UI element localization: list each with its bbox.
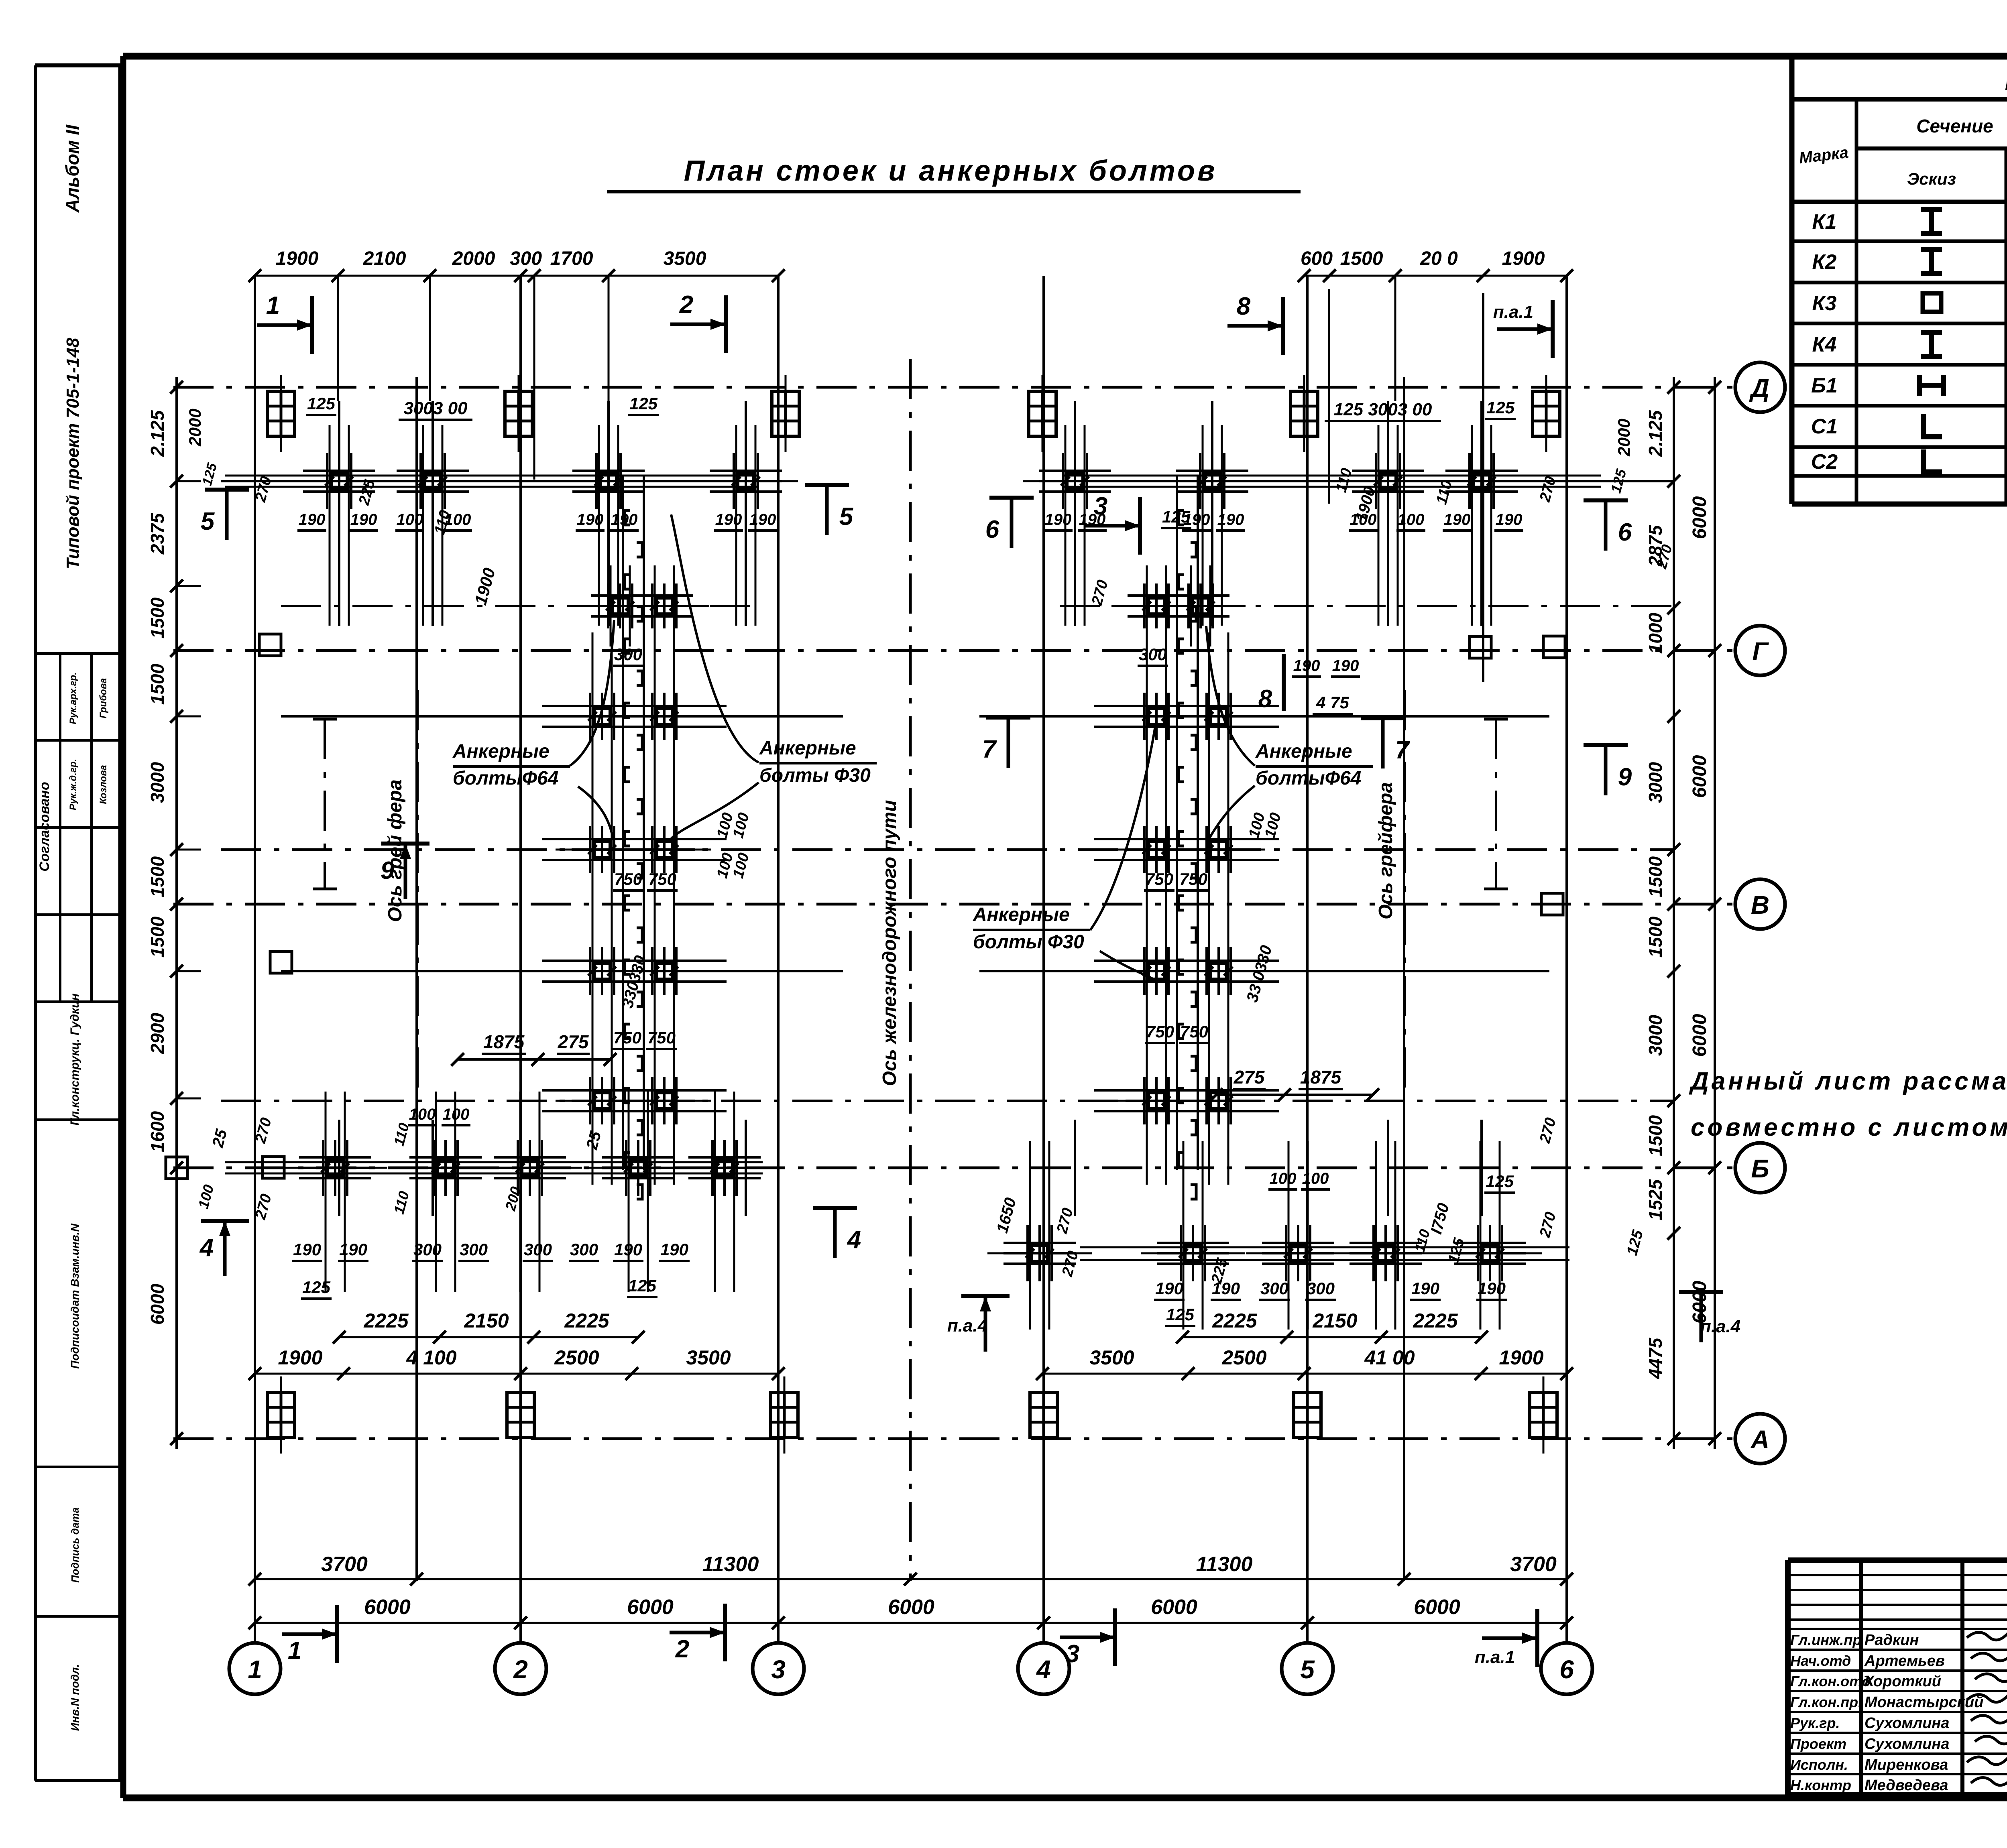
bottom dim 3700-11300 (255, 1578, 1567, 1580)
right dim column inner (1673, 377, 1675, 1449)
svg-text:190: 190 (339, 1240, 367, 1259)
svg-text:125: 125 (302, 1278, 331, 1297)
svg-text:100: 100 (1398, 511, 1425, 529)
svg-text:100: 100 (397, 511, 423, 529)
bin wall cluster row 1785 (589, 693, 591, 740)
svg-text:Артемьев: Артемьев (1864, 1653, 1945, 1669)
svg-text:6000: 6000 (1414, 1596, 1460, 1619)
anchor bolt cluster row 1510 (607, 583, 609, 628)
bin wall cluster row 2743 (589, 1077, 591, 1124)
svg-text:300: 300 (460, 1240, 488, 1259)
axis line 4 (1042, 276, 1045, 1643)
left sidebar stamp column (34, 65, 37, 1781)
svg-text:190: 190 (1411, 1279, 1439, 1298)
svg-text:2375: 2375 (147, 512, 168, 555)
vertical 3695 right (1482, 293, 1484, 682)
svg-text:100: 100 (1350, 511, 1377, 529)
row axis D (173, 386, 1735, 389)
svg-text:Гл.конструкц. Гудкин: Гл.конструкц. Гудкин (68, 993, 81, 1125)
svg-text:Миренкова: Миренкова (1865, 1757, 1948, 1773)
svg-text:275: 275 (558, 1031, 589, 1052)
svg-text:С1: С1 (1811, 415, 1838, 438)
section flag pa4 right (1679, 1290, 1723, 1294)
svg-text:4: 4 (1036, 1655, 1051, 1684)
section flag 8 bottom (1282, 654, 1286, 711)
svg-text:1525: 1525 (1645, 1179, 1666, 1220)
right dim column outer (1714, 377, 1716, 1449)
svg-text:Ось железнодорожного пути: Ось железнодорожного пути (879, 800, 900, 1086)
svg-text:2: 2 (513, 1655, 528, 1684)
svg-text:6000: 6000 (1689, 496, 1710, 539)
row axis A (173, 1437, 1735, 1440)
svg-text:1: 1 (288, 1637, 301, 1665)
section flag 1 top (310, 296, 314, 354)
column K3 top (505, 391, 532, 436)
section flag pa1 top (1551, 300, 1555, 358)
svg-text:750: 750 (647, 1028, 676, 1047)
svg-text:Анкерные: Анкерные (1255, 741, 1352, 762)
anchor bolt cluster row B left (322, 1140, 324, 1196)
svg-text:Рук.гр.: Рук.гр. (1790, 1715, 1840, 1731)
section flag 7 right (1361, 716, 1405, 720)
svg-text:4 100: 4 100 (406, 1346, 456, 1369)
svg-text:Проект: Проект (1790, 1736, 1846, 1752)
svg-text:190: 190 (715, 511, 742, 529)
post square (263, 1157, 284, 1178)
svg-text:1000: 1000 (1645, 612, 1666, 654)
svg-text:190: 190 (1293, 657, 1320, 675)
svg-text:1900: 1900 (1502, 248, 1545, 269)
grab axis marker right (1495, 719, 1497, 889)
row 2117 dashdot (221, 848, 1674, 851)
svg-text:7: 7 (982, 736, 997, 763)
svg-text:Сухомлина: Сухомлина (1865, 1715, 1950, 1732)
svg-text:4 75: 4 75 (1316, 693, 1349, 712)
grab crane axis left (416, 690, 419, 1100)
axis line 2 (519, 276, 522, 1643)
svg-text:100: 100 (1302, 1170, 1329, 1187)
svg-text:6000: 6000 (364, 1596, 411, 1619)
svg-text:125: 125 (1486, 1172, 1514, 1191)
axis circle 1 (229, 1643, 281, 1694)
section flag 1 bottom (335, 1605, 339, 1663)
svg-text:6000: 6000 (147, 1283, 168, 1325)
svg-text:3500: 3500 (686, 1346, 731, 1369)
svg-text:125: 125 (628, 1276, 657, 1295)
post square (166, 1157, 187, 1179)
svg-text:К2: К2 (1812, 250, 1837, 274)
svg-text:1900: 1900 (278, 1346, 322, 1369)
column K3 top (772, 391, 799, 436)
svg-text:3700: 3700 (1510, 1553, 1557, 1576)
axis line 5 (1306, 276, 1309, 1643)
svg-text:В: В (1751, 890, 1769, 919)
svg-text:1875: 1875 (1300, 1067, 1342, 1088)
svg-text:3003 00: 3003 00 (403, 398, 468, 418)
bin wall cluster row 2420 (589, 947, 591, 995)
svg-text:5: 5 (839, 503, 854, 531)
secondary verticals upper (338, 401, 340, 626)
section flag 8 top (1281, 297, 1285, 355)
anchor bolt cluster row B right (1026, 1225, 1029, 1281)
anchor bolt cluster row B left (517, 1140, 519, 1196)
section flag 9 left (381, 842, 429, 846)
row axis G (173, 649, 1735, 652)
svg-text:4475: 4475 (1645, 1337, 1666, 1379)
svg-text:болты Ф30: болты Ф30 (973, 931, 1084, 953)
svg-text:20 0: 20 0 (1420, 248, 1458, 269)
section flag 2 top (724, 295, 728, 353)
sidebar lower labels (35, 1118, 120, 1121)
left dim column (175, 377, 178, 1449)
svg-text:300: 300 (510, 248, 542, 269)
svg-text:совместно с листом 7.: совместно с листом 7. (1691, 1114, 2007, 1141)
svg-text:190: 190 (1183, 511, 1210, 529)
svg-text:Радкин: Радкин (1865, 1632, 1919, 1649)
bin wall cluster row 1785 (651, 693, 653, 740)
secondary verticals lower (338, 1120, 340, 1216)
svg-text:Подписоидат Взам.инв.N: Подписоидат Взам.инв.N (69, 1223, 81, 1368)
svg-text:К3: К3 (1812, 292, 1837, 315)
svg-text:2.125: 2.125 (147, 410, 168, 457)
svg-text:1900: 1900 (1499, 1346, 1543, 1369)
svg-text:Монастырский: Монастырский (1865, 1694, 1983, 1711)
axis line 3 (777, 276, 780, 1643)
svg-text:1700: 1700 (550, 248, 593, 269)
svg-text:Ось грей фера: Ось грей фера (385, 779, 406, 922)
svg-text:125: 125 (1166, 1305, 1195, 1324)
svg-text:2500: 2500 (1221, 1346, 1266, 1369)
svg-text:300: 300 (1139, 645, 1167, 664)
svg-text:6000: 6000 (1151, 1596, 1197, 1619)
svg-text:300: 300 (570, 1240, 598, 1259)
post square (1541, 893, 1563, 915)
svg-text:3500: 3500 (664, 248, 706, 269)
svg-text:9: 9 (1618, 763, 1632, 791)
grab axis marker left (324, 719, 326, 889)
svg-text:6000: 6000 (627, 1596, 674, 1619)
svg-text:Альбом II: Альбом II (62, 124, 83, 213)
svg-text:Анкерные: Анкерные (973, 904, 1070, 925)
column K3 top (1029, 391, 1056, 436)
section flag 4 right (813, 1206, 857, 1210)
column K3 bottom (771, 1393, 798, 1437)
svg-text:1500: 1500 (1645, 1115, 1666, 1156)
svg-text:190: 190 (1444, 511, 1471, 529)
svg-text:п.а.1: п.а.1 (1475, 1647, 1515, 1667)
svg-text:750: 750 (1146, 1022, 1174, 1041)
svg-text:1500: 1500 (1645, 916, 1666, 958)
svg-text:болты Ф30: болты Ф30 (759, 765, 871, 786)
svg-text:300: 300 (413, 1240, 442, 1259)
svg-text:125: 125 (629, 394, 658, 413)
svg-text:п.а.1: п.а.1 (1493, 302, 1533, 322)
svg-text:1600: 1600 (147, 1111, 168, 1152)
svg-text:Н.контр: Н.контр (1790, 1777, 1851, 1793)
svg-text:190: 190 (1212, 1279, 1240, 1298)
section flag 7 left (986, 716, 1030, 720)
svg-text:6000: 6000 (1689, 755, 1710, 798)
bin wall right (1176, 476, 1178, 1170)
svg-text:Б: Б (1751, 1154, 1769, 1183)
svg-text:190: 190 (577, 511, 604, 529)
svg-text:1900: 1900 (276, 248, 319, 269)
svg-text:3: 3 (771, 1655, 786, 1684)
bottom dim inner left (339, 1336, 638, 1338)
anchor bolt cluster row B left (711, 1140, 714, 1196)
bottom dim mid right (1042, 1373, 1567, 1375)
svg-text:С2: С2 (1811, 450, 1838, 474)
svg-text:2225: 2225 (1413, 1309, 1458, 1332)
section flag pa4 left (961, 1294, 1010, 1298)
svg-text:2225: 2225 (1212, 1309, 1257, 1332)
svg-text:Козлова: Козлова (98, 765, 109, 804)
svg-text:2225: 2225 (564, 1309, 609, 1332)
row 1785 solid (281, 715, 843, 718)
svg-text:Подпись дата: Подпись дата (69, 1507, 81, 1583)
sheet frame (123, 53, 2007, 60)
svg-text:2150: 2150 (1312, 1309, 1357, 1332)
svg-text:2000: 2000 (452, 248, 495, 269)
svg-text:125 3003 00: 125 3003 00 (1334, 400, 1432, 419)
svg-text:6000: 6000 (1689, 1281, 1710, 1323)
svg-text:750: 750 (1180, 1022, 1208, 1041)
section flag 6 right (1584, 498, 1628, 502)
column K3 bottom (1030, 1393, 1057, 1437)
section flag 4 left (201, 1219, 249, 1223)
svg-text:Ведомость элементов: Ведомость элементов (2005, 67, 2007, 96)
svg-text:300: 300 (1260, 1279, 1288, 1298)
vertical line bin edge right 3700 (1403, 377, 1405, 1581)
bottom dim mid left (255, 1373, 778, 1375)
svg-text:300: 300 (1307, 1279, 1335, 1298)
anchor bolt cluster row D+2125 (326, 453, 328, 509)
svg-text:2225: 2225 (363, 1309, 409, 1332)
svg-text:100: 100 (409, 1106, 436, 1123)
svg-text:3000: 3000 (147, 762, 168, 803)
anchor bolt cluster row B right (1285, 1225, 1287, 1281)
axis line 1 (254, 276, 256, 1643)
svg-text:Нач.отд: Нач.отд (1790, 1653, 1851, 1669)
anchor bolt cluster row D+2125 (419, 453, 422, 509)
anchor bolt cluster row D+2125 (733, 453, 735, 509)
svg-text:3000: 3000 (1645, 1014, 1666, 1056)
column K3 bottom (507, 1393, 534, 1437)
svg-text:п.а.4: п.а.4 (947, 1316, 987, 1336)
column K3 top (1291, 391, 1318, 436)
svg-text:Гл.кон.отд: Гл.кон.отд (1790, 1673, 1871, 1689)
svg-text:3700: 3700 (321, 1553, 368, 1576)
svg-text:11300: 11300 (1196, 1553, 1253, 1576)
svg-text:100: 100 (1270, 1170, 1297, 1187)
svg-text:1500: 1500 (147, 597, 168, 638)
svg-text:190: 190 (1155, 1279, 1183, 1298)
svg-text:болтыФ64: болтыФ64 (1256, 768, 1361, 789)
svg-text:8: 8 (1237, 293, 1251, 320)
bin wall cluster row 2117 (589, 826, 591, 873)
row axis V (173, 903, 1735, 906)
svg-text:Согласовано: Согласовано (37, 782, 52, 872)
svg-text:6: 6 (1559, 1655, 1574, 1684)
svg-text:1500: 1500 (147, 663, 168, 705)
post square (1543, 636, 1565, 658)
svg-text:Инв.N подл.: Инв.N подл. (69, 1664, 81, 1731)
svg-text:275: 275 (1234, 1067, 1265, 1088)
row B double lines (225, 1161, 763, 1163)
svg-text:Анкерные: Анкерные (452, 741, 550, 762)
section flag 2 bottom (723, 1604, 727, 1661)
column K3 top (267, 391, 295, 436)
svg-text:4: 4 (847, 1226, 861, 1254)
svg-text:750: 750 (648, 870, 676, 888)
svg-text:750: 750 (613, 1028, 641, 1047)
svg-text:Типовой проект 705-1-148: Типовой проект 705-1-148 (63, 337, 83, 569)
axis circle 3 (753, 1643, 804, 1694)
svg-text:Рук.арх.гр.: Рук.арх.гр. (68, 672, 79, 724)
elements list table (1789, 59, 1795, 504)
bin wall cluster row 2420 (651, 947, 653, 995)
svg-text:Гл.кон.пр.: Гл.кон.пр. (1790, 1694, 1862, 1710)
bin wall cluster row 2117 (651, 826, 653, 873)
svg-text:2900: 2900 (147, 1012, 168, 1054)
svg-text:2100: 2100 (363, 248, 406, 269)
svg-text:2: 2 (675, 1635, 689, 1663)
svg-text:1500: 1500 (1645, 856, 1666, 897)
column K3 top (1533, 391, 1560, 436)
section flag 5 left (205, 488, 249, 492)
svg-text:К1: К1 (1812, 210, 1837, 234)
svg-text:4: 4 (199, 1234, 214, 1262)
svg-text:190: 190 (660, 1240, 688, 1259)
svg-text:3500: 3500 (1089, 1346, 1134, 1369)
svg-text:190: 190 (1217, 511, 1244, 529)
post square (1470, 636, 1491, 658)
svg-text:К4: К4 (1812, 333, 1837, 356)
section flag 9 right (1584, 743, 1628, 747)
svg-text:А: А (1750, 1425, 1769, 1454)
svg-text:190: 190 (611, 511, 638, 529)
row 1199 solid (221, 480, 763, 482)
svg-text:болтыФ64: болтыФ64 (453, 768, 558, 789)
svg-text:Сечение: Сечение (1916, 116, 1993, 136)
svg-text:750: 750 (1179, 870, 1207, 888)
grab crane axis right (1404, 690, 1406, 1100)
svg-text:2: 2 (679, 291, 693, 319)
svg-text:190: 190 (1045, 511, 1072, 529)
svg-text:190: 190 (293, 1240, 321, 1259)
top dim line left (255, 275, 778, 277)
bottom dim 6000s (255, 1622, 1567, 1624)
svg-text:41 00: 41 00 (1364, 1346, 1415, 1369)
svg-text:190: 190 (1079, 511, 1106, 529)
svg-text:1500: 1500 (147, 916, 168, 958)
svg-text:2.125: 2.125 (1645, 410, 1666, 457)
svg-text:1: 1 (248, 1655, 262, 1684)
row 2420 solid (281, 970, 843, 972)
svg-text:Эскиз: Эскиз (1907, 169, 1956, 188)
svg-text:6: 6 (1618, 518, 1632, 546)
svg-text:8: 8 (1258, 685, 1272, 713)
svg-text:300: 300 (524, 1240, 552, 1259)
anchor bolt cluster row B left (432, 1140, 435, 1196)
bin wall left (622, 476, 624, 1170)
svg-text:2000: 2000 (1614, 419, 1633, 456)
svg-text:1500: 1500 (1340, 248, 1383, 269)
column K3 bottom (267, 1393, 295, 1437)
axis circle 2 (495, 1643, 546, 1694)
title block (1788, 1557, 2007, 1563)
section flag 3 mid (1138, 497, 1142, 555)
svg-text:1500: 1500 (147, 856, 168, 897)
svg-text:3000: 3000 (1645, 762, 1666, 803)
svg-text:125: 125 (1486, 398, 1515, 417)
row 1510 dashdot (281, 605, 759, 607)
svg-text:190: 190 (1332, 657, 1359, 675)
bottom dim inner right (1183, 1336, 1482, 1338)
svg-text:190: 190 (350, 511, 377, 529)
svg-text:2500: 2500 (554, 1346, 599, 1369)
svg-text:Исполн.: Исполн. (1790, 1757, 1848, 1773)
svg-text:5: 5 (201, 508, 215, 535)
vertical line bin edge left 3700 (415, 377, 418, 1581)
svg-text:7: 7 (1395, 736, 1410, 764)
svg-text:125: 125 (307, 394, 336, 413)
axis circle 6 (1541, 1643, 1592, 1694)
svg-text:Д: Д (1749, 374, 1769, 403)
anchor bolt cluster row B right (1372, 1225, 1375, 1281)
anchor bolt cluster row B right (1180, 1225, 1182, 1281)
bin wall cluster row 2743 (651, 1077, 653, 1124)
anchor bolt cluster row D+2125 (595, 453, 598, 509)
svg-text:11300: 11300 (702, 1553, 759, 1576)
section flag 5 right (805, 483, 849, 487)
svg-text:190: 190 (614, 1240, 642, 1259)
svg-text:1: 1 (266, 292, 280, 319)
svg-text:6: 6 (985, 516, 999, 543)
svg-text:190: 190 (299, 511, 326, 529)
svg-text:Сухомлина: Сухомлина (1865, 1736, 1950, 1752)
svg-text:Короткий: Короткий (1865, 1673, 1941, 1690)
svg-text:6000: 6000 (1689, 1014, 1710, 1057)
svg-text:100: 100 (443, 1106, 470, 1123)
row 2743 dashdot (221, 1100, 1674, 1102)
svg-text:Гл.инж.пр: Гл.инж.пр (1790, 1632, 1861, 1648)
railway axis vertical (909, 359, 912, 1581)
svg-text:190: 190 (1478, 1279, 1506, 1298)
svg-text:Данный лист рассматривать: Данный лист рассматривать (1689, 1067, 2007, 1095)
svg-text:5: 5 (1300, 1655, 1315, 1684)
svg-text:Г: Г (1752, 637, 1769, 666)
column K3 bottom (1294, 1393, 1321, 1437)
svg-text:Грибова: Грибова (98, 678, 109, 719)
axis circle 5 (1282, 1643, 1333, 1694)
row axis B (173, 1167, 1735, 1169)
top dim line right (1304, 275, 1567, 277)
svg-text:Анкерные: Анкерные (759, 738, 856, 759)
section flag pa1 bottom (1535, 1609, 1539, 1667)
column K3 bottom (1530, 1393, 1557, 1437)
svg-text:750: 750 (1145, 870, 1173, 888)
svg-text:2150: 2150 (464, 1309, 509, 1332)
svg-text:1875: 1875 (483, 1031, 525, 1052)
sidebar approval table (35, 739, 120, 742)
svg-text:Б1: Б1 (1811, 374, 1838, 397)
svg-text:190: 190 (1496, 511, 1523, 529)
svg-text:Медведева: Медведева (1865, 1777, 1948, 1794)
svg-text:3: 3 (1066, 1640, 1079, 1668)
anchor bolt cluster row B left (625, 1140, 627, 1196)
section flag 3 bottom (1113, 1608, 1117, 1666)
